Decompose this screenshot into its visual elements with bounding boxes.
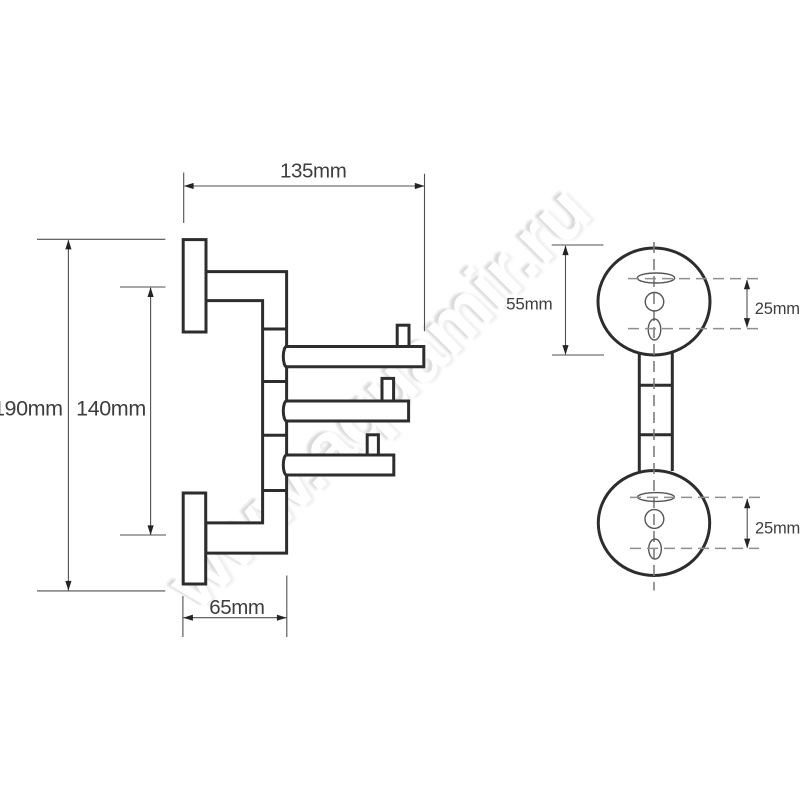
dimension 135mm extension line right bbox=[424, 174, 426, 332]
bottom mounting plate circle bbox=[598, 471, 709, 576]
dimension 65mm extension line right bbox=[286, 576, 288, 638]
dimension 135mm extension line left bbox=[183, 173, 185, 224]
svg-text:25mm: 25mm bbox=[755, 520, 800, 538]
dimension 25mm bottom arrow down bbox=[744, 539, 750, 549]
dimension 25mm bottom arrow up bbox=[744, 499, 750, 509]
connecting bar left edge bbox=[638, 353, 641, 472]
top circle: lower slot bbox=[648, 319, 661, 340]
top circle: slot ellipse bbox=[637, 273, 675, 283]
watermark www.aquamir.ru bbox=[147, 166, 610, 629]
dimension 25mm top arrow down bbox=[744, 318, 750, 328]
dimension 140mm arrow down bbox=[148, 525, 154, 535]
dimension 190mm line bbox=[67, 240, 69, 590]
bottom circle dashed line upper bbox=[630, 496, 761, 498]
dimension 135mm arrow left bbox=[184, 183, 194, 189]
connecting bar division 1 bbox=[639, 384, 672, 387]
dimension 55mm extension line top bbox=[552, 244, 604, 246]
dimension 140mm extension line top bbox=[120, 286, 166, 288]
swivel arm 2 bar bbox=[283, 401, 408, 421]
vertical dashed centerline bbox=[653, 242, 655, 591]
dimension 140mm extension line bottom bbox=[120, 534, 166, 536]
post division line 4 bbox=[263, 489, 287, 492]
dimension 25mm top arrow up bbox=[744, 280, 750, 290]
dimension 65mm extension line left bbox=[182, 596, 184, 637]
connecting bar division 2 bbox=[639, 433, 672, 436]
svg-text:140mm: 140mm bbox=[76, 396, 146, 420]
svg-text:55mm: 55mm bbox=[506, 295, 552, 314]
top wall plate bbox=[183, 240, 206, 332]
dimension 190mm extension line bottom bbox=[37, 590, 165, 592]
dimension 55mm arrow up bbox=[562, 245, 568, 255]
dimension 65mm arrow right bbox=[277, 615, 287, 621]
swivel arm 3 pin bbox=[367, 435, 378, 455]
dimension 55mm line bbox=[565, 246, 567, 354]
dimension 25mm top line bbox=[746, 280, 748, 327]
dimension 65mm arrow left bbox=[183, 615, 193, 621]
dimension 140mm line bbox=[150, 288, 152, 535]
swivel arm 3 bar bbox=[283, 455, 393, 475]
dimension 135mm line bbox=[185, 185, 425, 187]
dimension 190mm arrow up bbox=[65, 240, 71, 250]
post division line 3 bbox=[263, 434, 287, 437]
dimension 135mm arrow right bbox=[415, 183, 425, 189]
top circle dashed line lower bbox=[628, 328, 760, 330]
connecting bar right edge bbox=[671, 352, 674, 471]
bottom circle: lower slot bbox=[649, 539, 662, 559]
post division line 1 bbox=[263, 328, 287, 331]
bracket body: top arm, vertical post, bottom arm bbox=[206, 272, 287, 553]
svg-text:25mm: 25mm bbox=[755, 300, 800, 318]
top circle dashed line upper bbox=[628, 278, 760, 280]
bottom circle dashed line lower bbox=[630, 547, 759, 549]
dimension 140mm arrow up bbox=[148, 287, 154, 297]
dimension 190mm extension line top bbox=[37, 238, 165, 240]
swivel arm 2 pin bbox=[382, 378, 394, 401]
dimension 25mm bottom line bbox=[746, 499, 748, 548]
bottom circle: screw hole bbox=[645, 510, 664, 529]
dimension 190mm arrow down bbox=[65, 581, 71, 591]
swivel arm 1 bar bbox=[283, 347, 424, 367]
top circle: screw hole bbox=[645, 293, 664, 312]
dimension 65mm line bbox=[184, 617, 287, 619]
post division line 2 bbox=[263, 380, 287, 383]
dimension 55mm extension line bottom bbox=[552, 354, 604, 356]
dimension 55mm arrow down bbox=[562, 345, 568, 355]
top mounting plate circle bbox=[598, 248, 710, 355]
svg-text:190mm: 190mm bbox=[0, 396, 63, 420]
bottom circle: slot ellipse bbox=[638, 493, 675, 502]
svg-text:65mm: 65mm bbox=[209, 596, 264, 619]
svg-text:135mm: 135mm bbox=[280, 159, 346, 182]
swivel arm 1 pin bbox=[397, 325, 409, 346]
bottom wall plate bbox=[183, 493, 206, 584]
svg-text:www.aquamir.ru: www.aquamir.ru bbox=[151, 170, 606, 625]
